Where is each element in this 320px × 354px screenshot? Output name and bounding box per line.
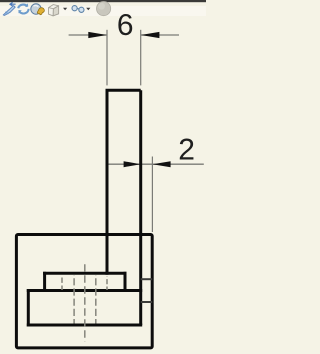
right step edge lower <box>141 301 153 303</box>
lower block left edge <box>27 291 30 326</box>
viewport background <box>0 0 206 354</box>
icon rebuild circular arrows <box>18 3 28 13</box>
middle block right edge <box>124 273 127 290</box>
post left edge and top edge <box>107 90 141 274</box>
icon material sphere with key <box>31 4 45 15</box>
dimension 2 dim line <box>107 163 204 165</box>
dimension 6 left extension line <box>106 30 108 86</box>
dimension 2 right arrowhead <box>152 161 170 167</box>
hidden line x62 <box>61 276 63 291</box>
dimension 6 dim line right tail <box>141 34 179 36</box>
hidden line x107 <box>106 277 108 291</box>
icon appearance sphere <box>97 2 111 16</box>
lower block bottom edge <box>28 324 140 327</box>
dropdown arrow 1 <box>63 8 67 10</box>
hidden line x74 <box>73 275 75 324</box>
dimension 2 extension line <box>151 157 153 233</box>
hidden line x96 <box>95 275 97 324</box>
toolbar highlight band <box>0 6 206 16</box>
post right edge <box>139 90 142 325</box>
icon hide/show eyeglasses <box>72 6 84 13</box>
dimension 6 left arrowhead <box>88 32 107 38</box>
dimension 2 text <box>180 139 194 160</box>
dimension 2 left arrowhead <box>124 161 141 167</box>
toolbar top border <box>0 0 206 2</box>
centerline x85 <box>84 264 86 341</box>
icon display-style box <box>49 5 59 16</box>
dimension 6 right extension line <box>140 30 142 86</box>
dropdown arrow 2 <box>86 8 90 10</box>
outer plate rectangle <box>16 235 152 348</box>
dimension 6 dim line left tail <box>69 34 107 36</box>
dimension 6 right arrowhead <box>141 32 160 38</box>
dimension 6 text <box>118 14 132 35</box>
lower block top edge <box>28 289 140 292</box>
middle block top edge <box>45 272 125 275</box>
icon sketch-pencil tool <box>3 2 15 15</box>
right step edge upper <box>141 278 153 280</box>
middle block left edge <box>43 273 46 290</box>
